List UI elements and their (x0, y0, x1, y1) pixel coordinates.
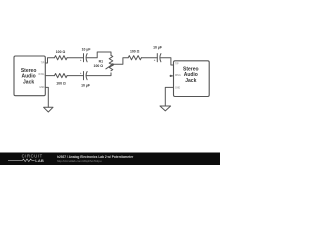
svg-text:GND: GND (39, 87, 44, 89)
svg-text:+: + (80, 58, 82, 62)
footer bar (0, 153, 220, 166)
svg-text:TIP: TIP (175, 63, 179, 65)
wire wiper to resistor jog (115, 58, 128, 64)
right jack box (174, 61, 210, 97)
capacitor C top-right (156, 54, 158, 62)
wire GND-right to ground (165, 87, 173, 106)
svg-text:+: + (80, 71, 82, 75)
svg-text:Jack: Jack (185, 78, 196, 84)
capacitor C top-left (83, 54, 85, 62)
svg-text:100 Ω: 100 Ω (130, 50, 140, 54)
svg-text:Jack: Jack (23, 80, 34, 86)
svg-text:100 Ω: 100 Ω (56, 82, 66, 86)
svg-text:RING: RING (175, 75, 181, 77)
svg-text:http://circuitlab.com/c8q4rfvs: http://circuitlab.com/c8q4rfvs7k2pu (57, 159, 102, 163)
svg-text:TIP: TIP (41, 63, 45, 65)
canvas background (0, 0, 220, 165)
wire resistor to cap bottom-left (67, 75, 83, 77)
svg-text:LAB: LAB (35, 158, 44, 163)
left jack box (14, 56, 45, 96)
wire resistor to cap top-left (67, 57, 83, 59)
wire resistor to cap top-right (141, 57, 157, 59)
pin dot RING-right (170, 75, 171, 76)
svg-text:100 Ω: 100 Ω (94, 64, 104, 68)
wire cap to pot bottom (86, 73, 111, 76)
wire cap to right jack TIP (160, 58, 174, 65)
ground symbol left (44, 107, 53, 112)
stub RING-right (171, 75, 173, 77)
svg-text:10 µF: 10 µF (82, 47, 91, 51)
wire GND-left to ground (45, 87, 48, 107)
wire cap to pot-top jog (86, 52, 111, 58)
potentiometer wiper arrow (106, 65, 112, 69)
svg-text:RING: RING (39, 74, 45, 76)
capacitor C bottom-left (83, 72, 85, 80)
resistor R top-right (128, 56, 141, 60)
wire RING-left row (45, 75, 54, 77)
svg-text:100 Ω: 100 Ω (56, 50, 66, 54)
wire TIP-left jog (45, 58, 54, 63)
potentiometer R1 body (109, 55, 113, 70)
svg-text:10 µF: 10 µF (81, 84, 90, 88)
svg-text:+: + (154, 58, 156, 62)
resistor R bottom-left (55, 74, 68, 78)
ground symbol right (160, 106, 171, 111)
svg-text:GND: GND (175, 88, 180, 90)
svg-text:10 µF: 10 µF (153, 46, 162, 50)
svg-text:R1: R1 (99, 60, 103, 64)
resistor R top-left (55, 56, 68, 60)
